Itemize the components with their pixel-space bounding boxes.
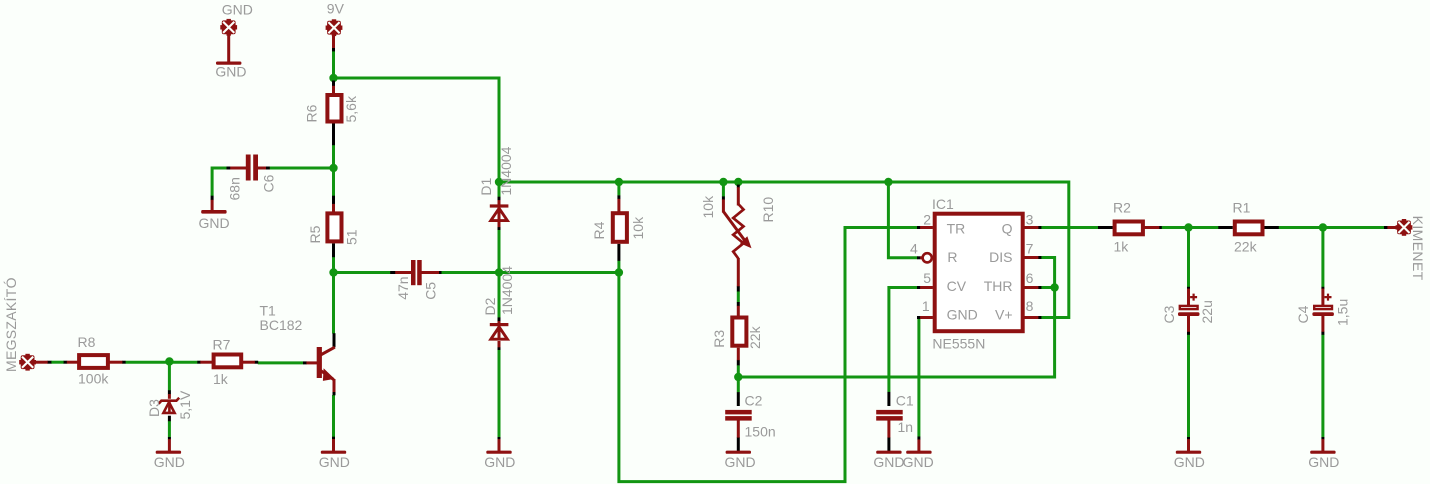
label 1k R2 xyxy=(1114,239,1130,255)
svg-text:GND: GND xyxy=(484,454,515,470)
node 9V junction xyxy=(329,74,337,82)
pin IC pin1 tip xyxy=(917,316,921,319)
node top bus at wiper xyxy=(719,178,727,186)
wire pot bottom to R3 xyxy=(737,291,740,302)
lead C5 left xyxy=(395,271,411,274)
lead IC pin1 xyxy=(920,316,933,319)
ground bar C4 xyxy=(1310,451,1335,454)
node C3 output xyxy=(1184,223,1192,231)
svg-text:R: R xyxy=(947,249,957,265)
lead R10 top xyxy=(737,187,740,205)
label GND pin xyxy=(947,307,978,323)
label V+ xyxy=(995,307,1013,323)
lead C5 right xyxy=(421,271,439,274)
pin T1 base xyxy=(303,361,307,364)
node collector/R5/C5 xyxy=(329,268,337,276)
svg-text:3: 3 xyxy=(1026,212,1034,228)
lead T1 emitter down xyxy=(333,379,336,392)
svg-text:10k: 10k xyxy=(700,195,716,219)
lead R6 top xyxy=(332,86,335,94)
lead C3 top xyxy=(1187,289,1190,306)
wire D3 to GND xyxy=(168,421,171,438)
node R3/C2 xyxy=(734,373,742,381)
svg-text:6: 6 xyxy=(1026,270,1034,286)
lead KIMENET pad left xyxy=(1387,226,1397,229)
label C5 xyxy=(423,282,439,300)
svg-text:R8: R8 xyxy=(78,334,96,350)
ground bar under C6 xyxy=(201,210,226,214)
wire trigger net: mid node down, bottom bus, up to TR pin xyxy=(619,228,918,482)
label CV xyxy=(947,278,967,294)
ground bar IC xyxy=(906,451,931,454)
wire 9V vertical to junction xyxy=(332,50,335,80)
wire R8 to D3 node to R7 xyxy=(125,361,197,364)
svg-text:GND: GND xyxy=(1308,454,1339,470)
label R10 xyxy=(760,197,776,223)
svg-text:R5: R5 xyxy=(307,225,323,243)
label IC1 xyxy=(932,196,954,212)
wire R1 to KIMENET xyxy=(1279,226,1385,229)
resistor R7 xyxy=(214,355,242,368)
ground bar D2 xyxy=(486,451,511,454)
pin number 1 xyxy=(922,298,930,314)
lead C3 bottom xyxy=(1187,316,1190,332)
pin C6 gnd lead xyxy=(211,196,214,201)
svg-text:R4: R4 xyxy=(591,221,607,239)
pin R2 right xyxy=(1159,226,1162,229)
lead R3 bottom xyxy=(737,348,740,361)
svg-text:5: 5 xyxy=(923,270,931,286)
lead C4 gnd xyxy=(1321,439,1324,451)
wire R4 bottom to mid node xyxy=(617,261,620,275)
svg-text:GND: GND xyxy=(725,454,756,470)
wire D1 top stub xyxy=(498,182,501,197)
pin T1 emitter xyxy=(333,392,336,396)
svg-text:D3: D3 xyxy=(146,399,162,417)
label GND C3 xyxy=(1174,454,1205,470)
lead 9V pad down xyxy=(332,34,335,48)
lead IC gnd xyxy=(917,439,920,451)
capacitor C3 polarized xyxy=(1178,294,1200,316)
svg-text:C2: C2 xyxy=(745,393,763,409)
label C4 xyxy=(1295,305,1311,323)
svg-text:150n: 150n xyxy=(745,423,776,439)
pin R6 bottom xyxy=(332,123,335,145)
node top bus at reset branch xyxy=(884,178,892,186)
lead D1 top xyxy=(498,200,501,205)
capacitor C5 plates xyxy=(411,260,422,285)
wire top bus y=182 with V+ drop xyxy=(499,182,1069,318)
svg-text:1n: 1n xyxy=(898,419,914,435)
pin D2 top xyxy=(498,317,501,321)
svg-text:8: 8 xyxy=(1026,298,1034,314)
svg-text:GND: GND xyxy=(903,454,934,470)
label 1,5u xyxy=(1335,299,1351,326)
pin T1 gnd xyxy=(332,437,335,440)
pin IC gnd lead xyxy=(917,437,920,440)
svg-text:GND: GND xyxy=(222,1,253,17)
wire IC GND pin down xyxy=(918,318,919,437)
svg-text:NE555N: NE555N xyxy=(932,336,985,352)
lead IC pin2 xyxy=(920,226,933,229)
pin D3 gnd xyxy=(168,437,171,440)
lead D2 gnd xyxy=(498,439,501,451)
capacitor C6 plates xyxy=(246,155,258,181)
svg-text:47n: 47n xyxy=(395,276,411,299)
svg-text:C6: C6 xyxy=(261,174,277,192)
svg-text:R7: R7 xyxy=(213,337,231,353)
lead GND top symbol xyxy=(227,34,230,63)
label 22k R3 xyxy=(747,325,763,349)
diode D1 xyxy=(490,204,509,221)
svg-text:7: 7 xyxy=(1026,240,1034,256)
pin R10 top xyxy=(737,185,740,188)
label Q xyxy=(1002,220,1013,236)
label 10k R4 xyxy=(630,216,646,240)
pin IC pin6 tip xyxy=(1038,286,1041,289)
ground bar D3 xyxy=(156,451,181,454)
wire T1 emitter to GND xyxy=(332,395,335,437)
lead C2 bottom xyxy=(737,421,740,438)
svg-text:R3: R3 xyxy=(711,330,727,348)
wire pot wiper stub xyxy=(722,182,725,197)
pin R5 bottom xyxy=(332,243,335,257)
lead C4 bottom xyxy=(1321,316,1324,332)
label 9V xyxy=(327,0,345,16)
pin D3 bottom xyxy=(168,416,171,422)
pin R6 top xyxy=(332,81,335,87)
node R8/R7/D3 xyxy=(165,357,173,365)
label GND IC xyxy=(903,454,934,470)
svg-text:D2: D2 xyxy=(482,297,498,315)
label KIMENET xyxy=(1410,216,1426,281)
pin IC pin8 tip xyxy=(1038,316,1041,319)
pin C4 gnd xyxy=(1321,437,1324,440)
transistor Q T1 xyxy=(317,347,335,381)
wire C2 top stub xyxy=(737,377,740,392)
label GND C4 xyxy=(1308,454,1339,470)
label GND T1 xyxy=(319,454,350,470)
wire threshold net: R3 node right, up to THR/DIS xyxy=(738,258,1054,378)
ground bar C2 xyxy=(726,451,751,454)
pin C1 bottom xyxy=(887,437,890,451)
wire Q output to R2 xyxy=(1041,226,1099,229)
svg-text:1N4004: 1N4004 xyxy=(498,146,514,195)
lead D1 bottom xyxy=(498,221,501,228)
lead C1 bottom xyxy=(887,421,890,438)
svg-text:1,5u: 1,5u xyxy=(1335,299,1351,326)
svg-text:R6: R6 xyxy=(304,104,320,122)
svg-text:THR: THR xyxy=(984,278,1013,294)
wire reset pin to top bus xyxy=(888,182,917,258)
svg-text:22k: 22k xyxy=(1234,239,1258,255)
zener diode D3 xyxy=(159,398,180,414)
pin C2 top xyxy=(737,392,740,406)
label THR xyxy=(984,278,1013,294)
pin D2 gnd xyxy=(498,437,501,440)
pin number 8 xyxy=(1026,298,1034,314)
svg-text:C3: C3 xyxy=(1161,305,1177,323)
pin R7 right xyxy=(255,361,259,364)
label DIS xyxy=(989,249,1012,265)
svg-text:9V: 9V xyxy=(327,0,345,16)
label T1 xyxy=(260,303,277,319)
lead C6 right xyxy=(257,167,267,170)
label D2 xyxy=(482,297,498,315)
lead R8 right xyxy=(110,361,123,364)
label 150n xyxy=(745,423,776,439)
lead T1 gnd xyxy=(332,439,335,451)
pin IC pin4 tip xyxy=(917,256,921,259)
node top bus at pot xyxy=(734,178,742,186)
wire R3 bottom to node xyxy=(737,365,740,378)
label TR xyxy=(947,220,966,236)
lead IC pin6 xyxy=(1025,286,1039,289)
pin number 4 xyxy=(910,240,918,256)
label GND C2 xyxy=(725,454,756,470)
lead R8 left xyxy=(67,361,78,364)
label 1N4004 D1 xyxy=(498,146,514,195)
lead R5 top xyxy=(332,204,335,213)
svg-text:R2: R2 xyxy=(1113,200,1131,216)
resistor R4 xyxy=(613,213,627,242)
label 1n xyxy=(898,419,914,435)
label GND above top pad xyxy=(222,1,253,17)
label R8 xyxy=(78,334,96,350)
pin C6 right xyxy=(266,167,270,170)
pin R10 bottom xyxy=(737,286,740,292)
lead D2 bottom xyxy=(498,341,501,347)
label R3 xyxy=(711,330,727,348)
wire R7 to T1 base xyxy=(258,361,303,364)
svg-text:C5: C5 xyxy=(423,282,439,300)
pin C3 gnd xyxy=(1187,437,1190,440)
lead R4 top xyxy=(617,199,620,212)
ground bar C3 xyxy=(1176,451,1201,454)
pin IC pin5 tip xyxy=(917,286,921,289)
diode D2 xyxy=(490,323,509,340)
svg-text:DIS: DIS xyxy=(989,249,1012,265)
svg-text:GND: GND xyxy=(1174,454,1205,470)
node D1/D2 mid xyxy=(495,268,503,276)
pin C5 left xyxy=(390,271,395,274)
lead T1 base xyxy=(306,361,317,364)
pin D1 bottom xyxy=(498,227,501,230)
label MEGSZAKITO xyxy=(3,277,19,372)
svg-text:1: 1 xyxy=(922,298,930,314)
label 47n xyxy=(395,276,411,299)
ground bar C1 xyxy=(876,451,901,454)
svg-text:GND: GND xyxy=(319,454,350,470)
svg-text:51: 51 xyxy=(344,229,360,245)
pad MEGSZAKITO xyxy=(19,354,36,371)
resistor R1 xyxy=(1235,222,1263,235)
ground bar top-left xyxy=(216,62,241,65)
label 22u xyxy=(1199,300,1215,323)
label R6 xyxy=(304,104,320,122)
wire C4 top xyxy=(1321,228,1324,288)
label D3 xyxy=(146,399,162,417)
wire D3 node down xyxy=(168,362,171,391)
lead D3 gnd xyxy=(168,439,171,451)
pin R7 left xyxy=(197,361,200,364)
op-amp style IC1 body NE555 xyxy=(923,214,1023,332)
label R1 xyxy=(1233,200,1251,216)
pin C4 top xyxy=(1321,287,1324,289)
label NE555N xyxy=(932,336,985,352)
svg-text:1N4004: 1N4004 xyxy=(499,266,515,315)
pin number 7 xyxy=(1026,240,1034,256)
svg-text:R10: R10 xyxy=(760,197,776,223)
label R5 xyxy=(307,225,323,243)
lead IC pin8 xyxy=(1025,316,1039,319)
svg-text:5,6k: 5,6k xyxy=(343,95,359,122)
wire R2 to R1 xyxy=(1162,226,1219,229)
wire mid node down to T1 collector xyxy=(332,273,335,334)
pin R8 right xyxy=(122,361,126,364)
pin R1 right xyxy=(1265,226,1279,229)
capacitor C1 plates xyxy=(876,410,903,421)
pin R2 left xyxy=(1098,226,1113,229)
pin IC pin7 tip xyxy=(1038,256,1041,259)
lead D2 top xyxy=(498,321,501,324)
pin R3 bottom xyxy=(737,360,740,366)
resistor R6 xyxy=(327,95,341,122)
svg-text:C4: C4 xyxy=(1295,305,1311,323)
label D1 xyxy=(478,177,494,195)
svg-text:1k: 1k xyxy=(1114,239,1130,255)
label 100k xyxy=(78,371,109,387)
pin D1 top xyxy=(498,197,501,201)
wire THR pin to DIS column xyxy=(1041,286,1055,289)
pin R3 top xyxy=(737,302,740,306)
lead C3 gnd xyxy=(1187,439,1190,451)
pin R5 top xyxy=(332,196,335,205)
svg-text:4: 4 xyxy=(910,240,918,256)
label 1N4004 D2 xyxy=(499,266,515,315)
lead R7 left xyxy=(200,361,212,364)
pin R8 left xyxy=(64,361,68,364)
label 68n xyxy=(227,177,243,200)
lead D3 top xyxy=(168,394,171,399)
lead IC pin3 xyxy=(1025,226,1039,229)
pad GND top xyxy=(220,19,237,36)
node top bus at R4 xyxy=(615,178,623,186)
svg-text:10k: 10k xyxy=(630,216,646,240)
wire R6 bottom to C6 node xyxy=(332,145,335,170)
pin C3 top xyxy=(1187,287,1190,289)
pin C3 bottom xyxy=(1187,331,1190,334)
lead IC pin4 xyxy=(920,256,922,259)
lead R3 top xyxy=(737,306,740,317)
svg-text:C1: C1 xyxy=(896,393,914,409)
svg-text:TR: TR xyxy=(947,220,966,236)
label 5,1V xyxy=(177,390,193,419)
pin 9V supply xyxy=(332,47,335,51)
label 51 xyxy=(344,229,360,245)
wire R5 bottom to mid node xyxy=(332,257,335,274)
svg-text:BC182: BC182 xyxy=(260,317,303,333)
lead R7 right xyxy=(243,361,255,364)
pin C1 top xyxy=(887,392,890,406)
svg-text:V+: V+ xyxy=(995,307,1013,323)
pin MEGSZAKITO pad xyxy=(47,361,51,364)
pin C4 bottom xyxy=(1321,331,1324,334)
label R pin xyxy=(947,249,957,265)
svg-text:MEGSZAKÍTÓ: MEGSZAKÍTÓ xyxy=(3,277,19,372)
svg-text:GND: GND xyxy=(947,307,978,323)
svg-text:IC1: IC1 xyxy=(932,196,954,212)
wire pad to R8 xyxy=(51,361,64,364)
pin R4 bottom xyxy=(617,244,620,261)
svg-text:1k: 1k xyxy=(213,371,229,387)
label 1k R7 xyxy=(213,371,229,387)
node R4 bottom xyxy=(615,268,623,276)
pin R1 left xyxy=(1218,226,1233,229)
pin IC pin3 tip xyxy=(1038,226,1041,229)
node C6/R5 xyxy=(329,164,337,172)
lead C6 gnd xyxy=(211,200,214,211)
wire D2 to GND xyxy=(498,350,501,437)
svg-text:GND: GND xyxy=(154,454,185,470)
svg-text:68n: 68n xyxy=(227,177,243,200)
label C6 xyxy=(261,174,277,192)
label C3 xyxy=(1161,305,1177,323)
resistor R2 xyxy=(1115,222,1143,235)
pin number 6 xyxy=(1026,270,1034,286)
resistor R3 xyxy=(732,318,746,346)
svg-text:GND: GND xyxy=(215,64,246,80)
label GND C1 xyxy=(873,454,904,470)
pin IC pin2 tip xyxy=(917,226,921,229)
svg-text:22u: 22u xyxy=(1199,300,1215,323)
pin number 2 xyxy=(923,212,931,228)
node THR/DIS xyxy=(1050,283,1058,291)
wire C6 right to node xyxy=(270,167,334,170)
svg-text:5,1V: 5,1V xyxy=(177,390,193,419)
wire R4 top stub xyxy=(617,182,620,195)
svg-text:100k: 100k xyxy=(78,371,109,387)
wire pot top stub xyxy=(737,182,740,185)
label GND under C6 xyxy=(199,215,230,231)
node top bus at D1 xyxy=(495,178,503,186)
wire C3 bottom to GND xyxy=(1187,335,1190,438)
lead R10 bottom tail xyxy=(737,258,740,286)
wire CV pin to C1 xyxy=(889,288,918,393)
lead IC pin5 xyxy=(920,286,933,289)
label C2 xyxy=(745,393,763,409)
pin C5 right xyxy=(439,271,442,274)
label GND D3 xyxy=(154,454,185,470)
label GND below top-left ground xyxy=(215,64,246,80)
pad KIMENET xyxy=(1396,219,1413,236)
svg-text:GND: GND xyxy=(873,454,904,470)
pin KIMENET pad xyxy=(1384,226,1388,229)
wire C6 node down to R5 xyxy=(332,168,335,196)
label R7 xyxy=(213,337,231,353)
pin D2 bottom xyxy=(498,347,501,350)
pin number 5 xyxy=(923,270,931,286)
lead C6 left xyxy=(230,167,246,170)
label BC182 xyxy=(260,317,303,333)
pin D3 top xyxy=(168,390,171,394)
capacitor C4 polarized xyxy=(1312,294,1334,316)
pin R10 wiper top xyxy=(722,196,725,199)
svg-text:D1: D1 xyxy=(478,177,494,195)
pin T1 collector xyxy=(333,333,336,347)
label 5,6k xyxy=(343,95,359,122)
lead C4 top xyxy=(1321,289,1324,306)
